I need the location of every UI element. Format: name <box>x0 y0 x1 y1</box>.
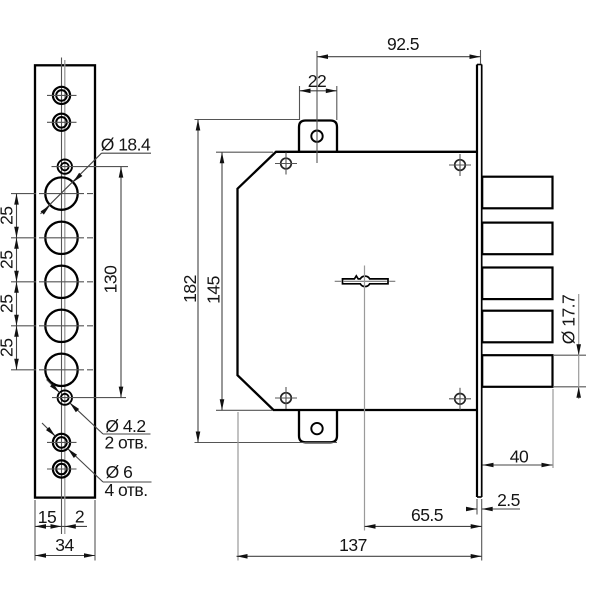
svg-text:40: 40 <box>510 447 529 467</box>
bottom tab hole <box>311 423 322 434</box>
strip body-edge offset line (gray) <box>64 60 66 534</box>
svg-text:34: 34 <box>55 535 74 555</box>
leader O4.2 shelf <box>103 433 151 435</box>
leader O18.4 diagonal <box>41 153 102 214</box>
bolt 3 <box>482 268 552 300</box>
faceplate of lock (edge view) <box>476 65 478 498</box>
svg-text:Ø 6: Ø 6 <box>106 462 133 482</box>
hole O6 #2 <box>47 114 77 131</box>
strip hole centerline (vertical axis) <box>61 58 63 535</box>
svg-text:Ø 17.7: Ø 17.7 <box>559 295 579 345</box>
keyhole (double-bit key slot) <box>343 276 389 287</box>
svg-text:130: 130 <box>101 265 121 293</box>
dimension 22 <box>299 86 301 120</box>
axis of big hole 1 <box>11 193 93 195</box>
dimension 2.5 <box>476 499 478 515</box>
axis of big hole 5 <box>11 369 93 371</box>
faceplate strip outline (left view) <box>35 65 95 497</box>
svg-text:2: 2 <box>75 507 84 527</box>
crosshair + extension line for 130 (bottom) <box>52 397 126 399</box>
hole O4.2 #2 <box>58 390 72 404</box>
leader O4.2 diagonal <box>70 403 103 434</box>
dimension 92.5 <box>316 51 318 163</box>
hole O6 #1 <box>47 87 77 104</box>
bolt 5 <box>482 355 552 387</box>
screw cross-circle bottom-left <box>275 387 297 409</box>
crosshair + extension line for 130 (top) <box>52 166 129 168</box>
bolt 2 <box>482 223 552 255</box>
screw cross-circle top-left <box>275 153 297 175</box>
svg-text:25: 25 <box>0 206 17 224</box>
keyhole vertical centerline <box>364 266 366 531</box>
top mounting tab <box>299 121 337 152</box>
dimension O17.7 <box>554 354 586 356</box>
leader O6 tail <box>42 423 55 436</box>
svg-text:25: 25 <box>0 295 17 313</box>
dimension 130 line <box>120 167 122 398</box>
dimension 65.5 <box>365 525 482 527</box>
svg-text:25: 25 <box>0 339 17 357</box>
top tab hole <box>311 131 322 142</box>
big hole O18.4 #4 <box>45 310 77 342</box>
svg-text:65.5: 65.5 <box>411 505 443 525</box>
lock body outline <box>238 152 478 410</box>
screw cross-circle top-right <box>449 154 471 176</box>
svg-text:145: 145 <box>204 276 224 304</box>
svg-text:25: 25 <box>0 251 17 269</box>
dimension 40 <box>552 389 554 468</box>
leader O4.2 tail <box>47 380 60 393</box>
extension lines strip bottom <box>34 500 36 561</box>
keyhole horizontal axis <box>335 280 396 282</box>
hole O6 #4 <box>47 460 77 477</box>
dimension 182 <box>195 119 300 121</box>
big hole O18.4 #1 <box>45 177 77 209</box>
screw cross-circle bottom-right <box>449 388 471 410</box>
dimension 15 / 2 line <box>35 525 87 527</box>
svg-text:2 отв.: 2 отв. <box>104 433 147 453</box>
svg-text:Ø 18.4: Ø 18.4 <box>101 135 151 155</box>
dimension 137 <box>237 412 239 561</box>
svg-text:2.5: 2.5 <box>497 490 520 510</box>
leader O6 diagonal <box>68 449 103 482</box>
svg-text:22: 22 <box>308 71 326 91</box>
svg-text:15: 15 <box>38 507 56 527</box>
hole O4.2 #1 <box>58 159 72 173</box>
big hole O18.4 #5 <box>45 354 77 386</box>
axis of big hole 3 <box>11 281 93 283</box>
big hole O18.4 #2 <box>45 222 77 254</box>
axis of big hole 2 <box>11 237 93 239</box>
hole O6 #3 <box>47 434 77 451</box>
dimension 34 line <box>35 555 95 557</box>
svg-text:92.5: 92.5 <box>387 34 419 54</box>
dimension 145 <box>216 151 273 153</box>
dimension 25 chain line <box>16 194 18 370</box>
svg-text:4 отв.: 4 отв. <box>104 480 147 500</box>
bolt 1 <box>482 177 552 209</box>
leader O6 shelf <box>103 481 152 483</box>
big hole O18.4 #3 <box>45 266 77 298</box>
bottom mounting tab <box>299 410 337 442</box>
svg-text:137: 137 <box>339 535 367 555</box>
leader O18.4 shelf <box>102 152 152 154</box>
axis of big hole 4 <box>11 325 93 327</box>
bolt 4 <box>482 311 552 343</box>
svg-text:182: 182 <box>180 275 200 303</box>
